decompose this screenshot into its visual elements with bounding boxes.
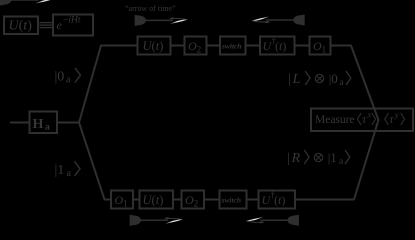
- svg-text:e: e: [57, 18, 63, 32]
- svg-text:Measure: Measure: [315, 114, 355, 126]
- svg-text:R: R: [291, 151, 301, 166]
- svg-text:−iHt: −iHt: [63, 16, 81, 26]
- svg-text:(t): (t): [275, 39, 286, 53]
- svg-text:a: a: [66, 75, 71, 86]
- svg-text:2: 2: [194, 200, 199, 210]
- svg-text:H: H: [33, 117, 44, 132]
- svg-text:U(t): U(t): [9, 19, 33, 34]
- svg-text:|: |: [287, 150, 290, 165]
- svg-text:a: a: [340, 78, 345, 88]
- svg-text:1: 1: [123, 200, 128, 210]
- svg-text:τ: τ: [362, 112, 367, 126]
- svg-text:|1: |1: [55, 163, 65, 178]
- svg-text:“arrow of time”: “arrow of time”: [125, 4, 176, 13]
- svg-text:U(t): U(t): [143, 39, 164, 53]
- svg-text:a: a: [45, 122, 50, 132]
- svg-text:U(t): U(t): [143, 193, 164, 207]
- svg-text:τ: τ: [389, 112, 394, 126]
- svg-text:y: y: [394, 110, 399, 120]
- svg-text:|: |: [288, 71, 291, 86]
- svg-text:x: x: [367, 110, 372, 120]
- svg-text:1: 1: [322, 46, 327, 56]
- svg-text:(t): (t): [274, 193, 285, 207]
- svg-text:|1: |1: [328, 150, 337, 165]
- svg-text:|0: |0: [55, 70, 65, 85]
- svg-text:a: a: [67, 168, 72, 179]
- svg-text:,: ,: [375, 116, 378, 128]
- svg-text:switch: switch: [221, 42, 242, 51]
- svg-text:switch: switch: [221, 196, 242, 205]
- svg-text:L: L: [292, 72, 301, 87]
- svg-text:a: a: [339, 157, 344, 167]
- svg-text:2: 2: [197, 46, 202, 56]
- svg-text:|0: |0: [329, 71, 338, 86]
